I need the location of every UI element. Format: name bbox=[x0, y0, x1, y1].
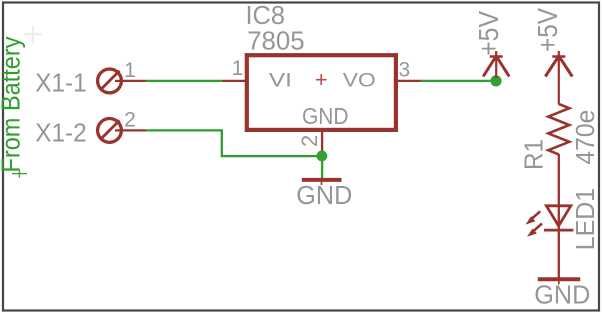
svg-text:470e: 470e bbox=[570, 110, 600, 165]
svg-text:2: 2 bbox=[124, 108, 136, 131]
svg-text:VI: VI bbox=[269, 71, 292, 92]
svg-text:X1-2: X1-2 bbox=[35, 118, 86, 148]
svg-text:7805: 7805 bbox=[247, 26, 305, 56]
svg-text:X1-1: X1-1 bbox=[35, 67, 86, 97]
svg-text:VO: VO bbox=[343, 71, 376, 92]
svg-text:2: 2 bbox=[297, 135, 322, 147]
svg-text:1: 1 bbox=[124, 59, 136, 82]
svg-text:R1: R1 bbox=[519, 139, 549, 170]
svg-text:GND: GND bbox=[296, 180, 352, 210]
svg-text:GND: GND bbox=[534, 279, 590, 309]
svg-text:3: 3 bbox=[399, 59, 411, 82]
svg-text:+5V: +5V bbox=[532, 8, 563, 52]
svg-text:+5V: +5V bbox=[473, 11, 504, 56]
svg-text:1: 1 bbox=[232, 57, 244, 80]
svg-text:From Battery: From Battery bbox=[0, 36, 26, 172]
svg-text:+: + bbox=[315, 67, 328, 92]
svg-text:GND: GND bbox=[302, 103, 349, 129]
svg-text:LED1: LED1 bbox=[570, 188, 600, 251]
